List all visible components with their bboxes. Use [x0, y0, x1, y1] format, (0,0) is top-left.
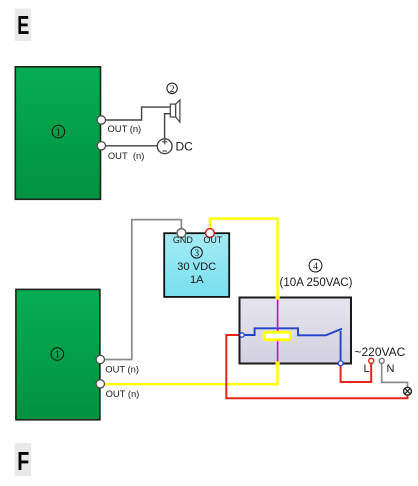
svg-text:4: 4: [313, 261, 318, 272]
terminal OUT(n) 1 of box 1: [97, 116, 105, 124]
label 2 (circled) speaker: [167, 83, 177, 95]
terminal relay COM (blue): [240, 333, 244, 337]
svg-text:L: L: [364, 363, 370, 375]
svg-text:GND: GND: [173, 235, 194, 245]
yellow wire PSU OUT to relay coil top: [210, 219, 278, 298]
section label F: [15, 443, 31, 476]
device box 1 (top controller): [15, 67, 100, 200]
svg-text:DC: DC: [176, 140, 194, 154]
red wire relay COM to lamp: [226, 335, 407, 398]
relay fixed contact to NO terminal (blue): [340, 331, 342, 362]
svg-text:1A: 1A: [190, 274, 204, 286]
relay coil: [264, 332, 291, 340]
label 4 (circled) relay: [309, 259, 322, 272]
svg-text:1: 1: [56, 127, 61, 138]
svg-text:OUT (n): OUT (n): [105, 363, 139, 374]
svg-text:OUT (n): OUT (n): [106, 388, 140, 399]
terminal OUT of PSU: [206, 229, 215, 238]
label 1 (circled) top box: [52, 125, 65, 138]
terminal OUT(n) 2 of box 2: [96, 380, 104, 388]
wire OUT(n) bottom to DC source: [104, 145, 157, 147]
lamp (load) symbol: [404, 387, 412, 395]
terminal N (gray): [379, 358, 384, 363]
terminal OUT(n) 1 of box 2: [96, 355, 104, 363]
svg-text:F: F: [17, 446, 29, 476]
speaker / buzzer symbol: [170, 100, 180, 122]
red wire relay NO terminal to L: [341, 364, 372, 383]
terminal relay NO (blue): [338, 361, 343, 366]
svg-text:E: E: [17, 10, 29, 40]
power supply box U3: [164, 233, 229, 297]
svg-text:~220VAC: ~220VAC: [355, 345, 406, 359]
relay box K4: [240, 298, 352, 364]
svg-text:1: 1: [55, 350, 60, 361]
gray wire N to lamp: [382, 363, 408, 387]
svg-text:3: 3: [194, 249, 199, 259]
device box 1 (bottom controller): [16, 289, 100, 419]
svg-text:OUT (n): OUT (n): [108, 150, 144, 161]
label 3 (circled) PSU: [191, 247, 202, 259]
svg-text:30 VDC: 30 VDC: [177, 261, 216, 273]
gray wire PSU GND to box 2 OUT: [105, 220, 182, 360]
svg-text:OUT: OUT: [203, 235, 223, 245]
junction coil top: [276, 295, 280, 299]
svg-text:OUT (n): OUT (n): [108, 123, 142, 134]
section label E: [15, 9, 31, 42]
terminal L (red): [369, 358, 374, 363]
wire speaker to DC source: [165, 114, 171, 139]
terminal OUT(n) 2 of box 1: [97, 142, 105, 150]
relay coil wire (magenta): [277, 299, 279, 363]
DC source symbol: [157, 139, 172, 154]
svg-text:2: 2: [170, 85, 175, 95]
yellow wire relay coil bottom to box 2 OUT: [105, 364, 278, 385]
svg-text:(10A 250VAC): (10A 250VAC): [280, 277, 353, 289]
relay switch path (blue): [244, 328, 342, 335]
label 1 (circled) bottom box: [51, 348, 64, 361]
terminal GND of PSU: [177, 229, 186, 238]
wire OUT(n) top to speaker: [104, 107, 170, 120]
junction coil bottom: [276, 361, 280, 365]
svg-text:N: N: [387, 363, 395, 375]
